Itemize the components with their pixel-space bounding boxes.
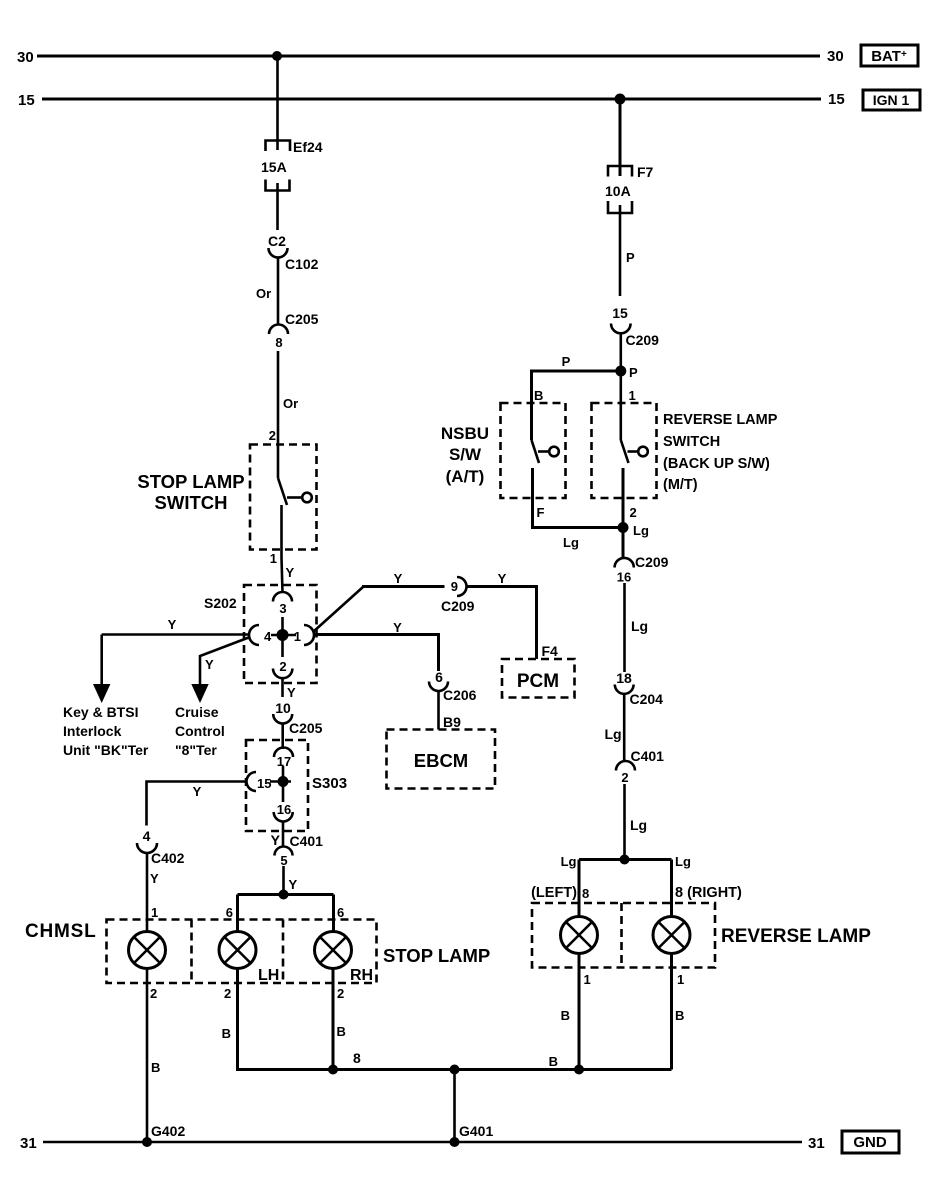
svg-text:Y: Y bbox=[150, 871, 159, 886]
wire from bus30 down to fuse Ef24 bbox=[276, 56, 279, 150]
lamp RH bbox=[315, 932, 352, 969]
svg-text:8: 8 bbox=[582, 886, 589, 901]
svg-text:Interlock: Interlock bbox=[63, 723, 122, 739]
connector C205 pin 8 bbox=[269, 311, 319, 350]
svg-text:30: 30 bbox=[17, 49, 34, 66]
connector C402 pin 4 bbox=[137, 828, 185, 866]
svg-text:F4: F4 bbox=[542, 643, 559, 659]
svg-text:Y: Y bbox=[498, 571, 507, 586]
S202 pin 1 arc bbox=[304, 625, 314, 645]
svg-text:1: 1 bbox=[270, 551, 277, 566]
svg-text:B: B bbox=[222, 1026, 231, 1041]
svg-text:C205: C205 bbox=[289, 720, 323, 736]
S202 center cross bbox=[281, 617, 284, 657]
node P junction bbox=[615, 366, 626, 377]
svg-text:C205: C205 bbox=[285, 311, 319, 327]
NSBU S/W box bbox=[501, 403, 566, 498]
svg-text:C204: C204 bbox=[630, 691, 664, 707]
svg-text:31: 31 bbox=[20, 1135, 37, 1152]
wire left from S202 pin4 bbox=[102, 633, 249, 636]
connector C209 pin 15 bbox=[611, 305, 659, 348]
wire across to reverse branch bbox=[333, 1068, 672, 1071]
wire bus 15 bbox=[42, 98, 821, 101]
svg-text:15A: 15A bbox=[261, 159, 287, 175]
reverse switch contact circle bbox=[638, 447, 648, 457]
wire from bus15 down to fuse F7 bbox=[619, 99, 622, 176]
svg-text:8 (RIGHT): 8 (RIGHT) bbox=[675, 885, 742, 901]
wire down to RH lamp bbox=[332, 895, 335, 932]
svg-text:C401: C401 bbox=[631, 748, 665, 764]
svg-text:Cruise: Cruise bbox=[175, 704, 219, 720]
net IGN 1 box bbox=[863, 90, 920, 110]
svg-text:8: 8 bbox=[353, 1050, 361, 1066]
S202 pin 3 arc bbox=[273, 592, 292, 602]
svg-text:Lg: Lg bbox=[675, 854, 691, 869]
divider 1 bbox=[190, 920, 193, 984]
wire Lg down to reverse tee bbox=[623, 784, 626, 860]
svg-text:1: 1 bbox=[629, 388, 636, 403]
svg-text:2: 2 bbox=[621, 770, 628, 785]
svg-text:C206: C206 bbox=[443, 687, 477, 703]
svg-text:Or: Or bbox=[256, 286, 271, 301]
svg-text:9: 9 bbox=[451, 579, 458, 594]
svg-text:C209: C209 bbox=[635, 554, 669, 570]
svg-text:C209: C209 bbox=[626, 332, 660, 348]
svg-text:C402: C402 bbox=[151, 850, 185, 866]
reverse lamp switch box bbox=[592, 403, 657, 498]
svg-text:IGN 1: IGN 1 bbox=[873, 92, 910, 108]
arrow to Key & BTSI bbox=[93, 684, 110, 703]
svg-text:15: 15 bbox=[612, 305, 628, 321]
wire B9 to EBCM bbox=[437, 691, 440, 730]
svg-text:4: 4 bbox=[264, 629, 272, 644]
wire Y from C402 to CHMSL lamp bbox=[146, 853, 149, 932]
svg-text:F7: F7 bbox=[637, 164, 654, 180]
wire Lg from 18/C204 to 2/C401 bbox=[623, 694, 626, 762]
svg-text:(M/T): (M/T) bbox=[663, 477, 698, 493]
switch contact tick bbox=[287, 496, 302, 499]
svg-text:(BACK UP S/W): (BACK UP S/W) bbox=[663, 456, 770, 472]
S202 pin 4 arc bbox=[249, 625, 259, 645]
svg-text:RH: RH bbox=[350, 967, 373, 984]
lamp CHMSL bbox=[129, 932, 166, 969]
svg-text:B9: B9 bbox=[443, 714, 461, 730]
wire Or from C102 to C205 bbox=[277, 258, 280, 326]
svg-text:B: B bbox=[534, 388, 543, 403]
reverse switch blade bbox=[621, 440, 629, 463]
node G402 bbox=[142, 1137, 152, 1147]
net BAT+ box bbox=[861, 45, 918, 66]
svg-text:P: P bbox=[626, 250, 635, 265]
splice S202 box bbox=[244, 585, 317, 683]
svg-text:B: B bbox=[151, 1060, 160, 1075]
svg-text:2: 2 bbox=[224, 986, 231, 1001]
svg-text:REVERSE LAMP: REVERSE LAMP bbox=[721, 926, 871, 947]
svg-text:16: 16 bbox=[617, 570, 631, 585]
NSBU contact tick bbox=[538, 450, 549, 453]
svg-text:Y: Y bbox=[287, 685, 296, 700]
lamp reverse right bbox=[653, 917, 690, 954]
node reverse tee junction bbox=[620, 855, 630, 865]
connector C401 pin 5 bbox=[271, 832, 324, 868]
svg-text:2: 2 bbox=[630, 505, 637, 520]
wire into switch bbox=[619, 403, 622, 440]
node G401 bbox=[450, 1137, 460, 1147]
svg-text:C401: C401 bbox=[290, 833, 324, 849]
NSBU contact circle bbox=[549, 447, 559, 457]
svg-text:Unit "BK"Ter: Unit "BK"Ter bbox=[63, 742, 149, 758]
NSBU blade bbox=[532, 440, 540, 463]
svg-text:B: B bbox=[549, 1054, 558, 1069]
S303 pin 17 arc bbox=[274, 748, 293, 758]
svg-text:REVERSE LAMP: REVERSE LAMP bbox=[663, 412, 778, 428]
wire right from S202 pin 1 to C206 corner bbox=[314, 635, 439, 672]
svg-text:Y: Y bbox=[205, 657, 214, 672]
wire P horizontal to NSBU bbox=[532, 371, 621, 440]
svg-text:P: P bbox=[629, 365, 638, 380]
wire B left reverse lamp down bbox=[578, 954, 581, 1070]
svg-text:LH: LH bbox=[258, 967, 279, 984]
module PCM box bbox=[502, 659, 575, 698]
wire from S303 pin16 down bbox=[282, 822, 285, 848]
S303 pin 15 arc bbox=[247, 772, 257, 791]
svg-text:15: 15 bbox=[257, 776, 271, 791]
svg-text:Or: Or bbox=[283, 396, 298, 411]
wire B right reverse lamp down and left bbox=[670, 954, 673, 1070]
svg-text:SWITCH: SWITCH bbox=[155, 492, 228, 513]
wire down left reverse lamp bbox=[578, 860, 581, 918]
SPLICE S303 bbox=[246, 740, 347, 831]
wire from S303 pin15 left and down bbox=[147, 782, 248, 826]
svg-text:GND: GND bbox=[853, 1134, 887, 1151]
svg-text:S/W: S/W bbox=[449, 445, 482, 464]
lamp reverse left bbox=[561, 917, 598, 954]
svg-text:(A/T): (A/T) bbox=[446, 467, 485, 486]
svg-text:8: 8 bbox=[275, 335, 282, 350]
svg-text:15: 15 bbox=[18, 92, 35, 109]
wire lower switch pole bbox=[280, 505, 283, 558]
svg-text:Y: Y bbox=[193, 784, 202, 799]
svg-text:Y: Y bbox=[286, 565, 295, 580]
svg-text:3: 3 bbox=[279, 601, 286, 616]
svg-text:15: 15 bbox=[828, 91, 845, 108]
svg-text:Key & BTSI: Key & BTSI bbox=[63, 704, 138, 720]
wire down to LH lamp bbox=[236, 895, 239, 932]
fuse F7 10A bbox=[605, 164, 654, 213]
wire bus 30 bbox=[37, 55, 820, 58]
svg-text:C209: C209 bbox=[441, 598, 475, 614]
svg-text:1: 1 bbox=[151, 905, 158, 920]
connector C209 pin 16 bbox=[615, 554, 669, 585]
node junction RH bbox=[328, 1065, 338, 1075]
connector C2 / C102 bbox=[268, 233, 319, 272]
svg-text:Y: Y bbox=[393, 620, 402, 635]
wire NSBU lower pole F bbox=[533, 468, 624, 528]
wire Lg from 16/C209 to 18/C204 bbox=[623, 583, 626, 672]
wire P from fuse to 15/C209 bbox=[619, 213, 622, 296]
svg-text:Ef24: Ef24 bbox=[293, 139, 323, 155]
wire from S202 pin2 down bbox=[281, 677, 284, 697]
svg-text:Lg: Lg bbox=[561, 854, 577, 869]
svg-text:16: 16 bbox=[277, 802, 291, 817]
svg-text:2: 2 bbox=[279, 659, 286, 674]
svg-text:STOP LAMP: STOP LAMP bbox=[137, 471, 244, 492]
wire from 9/C209 to PCM corner bbox=[467, 587, 537, 660]
wire LH lamp down and right bbox=[238, 969, 334, 1070]
wire tee horizontal bbox=[238, 893, 334, 896]
svg-text:18: 18 bbox=[616, 670, 632, 686]
svg-text:(LEFT): (LEFT) bbox=[531, 885, 577, 901]
svg-text:1: 1 bbox=[294, 629, 301, 644]
connector C401 pin 2 bbox=[616, 748, 664, 785]
svg-text:4: 4 bbox=[143, 828, 151, 844]
svg-text:Lg: Lg bbox=[631, 618, 648, 634]
wire down right reverse lamp bbox=[670, 860, 673, 918]
fuse Ef24 15A bbox=[261, 139, 323, 191]
wire from fuse to connector C2 bbox=[276, 191, 279, 231]
connector C206 pin 6 bbox=[429, 669, 477, 703]
svg-text:P: P bbox=[562, 354, 571, 369]
module EBCM box bbox=[387, 730, 496, 789]
svg-text:2: 2 bbox=[269, 428, 276, 443]
svg-text:EBCM: EBCM bbox=[414, 750, 468, 771]
svg-text:C2: C2 bbox=[268, 233, 286, 249]
lamp LH bbox=[219, 932, 256, 969]
node junction on bus 30 bbox=[272, 51, 282, 61]
svg-text:"8"Ter: "8"Ter bbox=[175, 742, 217, 758]
SPLICE S202 bbox=[204, 585, 317, 683]
wire Or from C205 to stop lamp switch bbox=[277, 351, 280, 478]
svg-text:B: B bbox=[675, 1008, 684, 1023]
svg-text:SWITCH: SWITCH bbox=[663, 434, 720, 450]
svg-text:2: 2 bbox=[150, 986, 157, 1001]
node tee junction bbox=[279, 890, 289, 900]
stop lamp switch box bbox=[250, 445, 317, 550]
svg-text:2: 2 bbox=[337, 986, 344, 1001]
svg-text:10: 10 bbox=[275, 700, 291, 716]
svg-text:Y: Y bbox=[168, 617, 177, 632]
svg-text:STOP LAMP: STOP LAMP bbox=[383, 945, 490, 966]
reverse lamp box bbox=[532, 903, 715, 968]
node Lg junction bbox=[618, 522, 629, 533]
wire CHMSL B down to G402 bbox=[146, 969, 149, 1143]
svg-text:S303: S303 bbox=[312, 775, 347, 792]
wire RH lamp down bbox=[332, 969, 335, 1070]
svg-text:NSBU: NSBU bbox=[441, 424, 489, 443]
switch blade bbox=[278, 478, 287, 505]
connector C209 pin 9 bbox=[441, 577, 475, 614]
wire down to G401 bbox=[453, 1070, 456, 1143]
divider 2 bbox=[282, 920, 285, 984]
wire from 10/C205 to S303 bbox=[281, 724, 284, 750]
svg-text:F: F bbox=[537, 505, 545, 520]
svg-text:Lg: Lg bbox=[605, 726, 622, 742]
switch contact circle bbox=[302, 493, 312, 503]
wire diagonal up-right from pin 1 bbox=[313, 587, 363, 632]
svg-text:1: 1 bbox=[584, 972, 591, 987]
svg-text:1: 1 bbox=[677, 972, 684, 987]
svg-text:30: 30 bbox=[827, 48, 844, 65]
svg-text:31: 31 bbox=[808, 1135, 825, 1152]
svg-text:Y: Y bbox=[394, 571, 403, 586]
svg-text:6: 6 bbox=[226, 905, 233, 920]
svg-text:Lg: Lg bbox=[633, 523, 649, 538]
S303 center bbox=[282, 766, 285, 802]
connector C205 pin 10 bbox=[273, 700, 322, 736]
svg-text:B: B bbox=[337, 1024, 346, 1039]
net GND box bbox=[842, 1131, 899, 1153]
node junction on bus 15 bbox=[615, 94, 626, 105]
svg-text:Y: Y bbox=[289, 877, 298, 892]
node reverse join bbox=[574, 1065, 584, 1075]
svg-text:S202: S202 bbox=[204, 595, 237, 611]
connector C204 pin 18 bbox=[615, 670, 663, 707]
splice S303 box bbox=[246, 740, 308, 831]
wire bus 31 ground bbox=[43, 1141, 802, 1144]
wire from 15/C209 to P junction bbox=[619, 334, 622, 404]
wire down to Key BTSI arrow bbox=[100, 635, 103, 687]
divider bbox=[620, 903, 623, 968]
svg-text:Y: Y bbox=[271, 832, 281, 848]
svg-text:C102: C102 bbox=[285, 256, 319, 272]
svg-text:Lg: Lg bbox=[630, 817, 647, 833]
wire diagonal to cruise arrow bbox=[200, 637, 250, 686]
svg-text:Control: Control bbox=[175, 723, 225, 739]
reverse switch contact tick bbox=[628, 450, 639, 453]
svg-text:10A: 10A bbox=[605, 183, 631, 199]
svg-text:Lg: Lg bbox=[563, 535, 579, 550]
svg-text:CHMSL: CHMSL bbox=[25, 921, 97, 942]
wire tee horizontal bbox=[579, 858, 672, 861]
svg-text:G401: G401 bbox=[459, 1123, 493, 1139]
wire reverse switch lower pole bbox=[622, 468, 625, 558]
node junction G401 drop bbox=[450, 1065, 460, 1075]
wire from 5/C401 down to stop lamp tee bbox=[282, 866, 285, 895]
svg-text:PCM: PCM bbox=[517, 671, 559, 692]
svg-text:6: 6 bbox=[435, 669, 443, 685]
stop lamp box bbox=[107, 920, 377, 984]
svg-text:6: 6 bbox=[337, 905, 344, 920]
wire horizontal to connector 9 C209 bbox=[362, 585, 445, 588]
svg-text:5: 5 bbox=[280, 853, 287, 868]
arrow to Cruise Control bbox=[191, 684, 208, 703]
svg-text:G402: G402 bbox=[151, 1123, 185, 1139]
svg-text:B: B bbox=[561, 1008, 570, 1023]
